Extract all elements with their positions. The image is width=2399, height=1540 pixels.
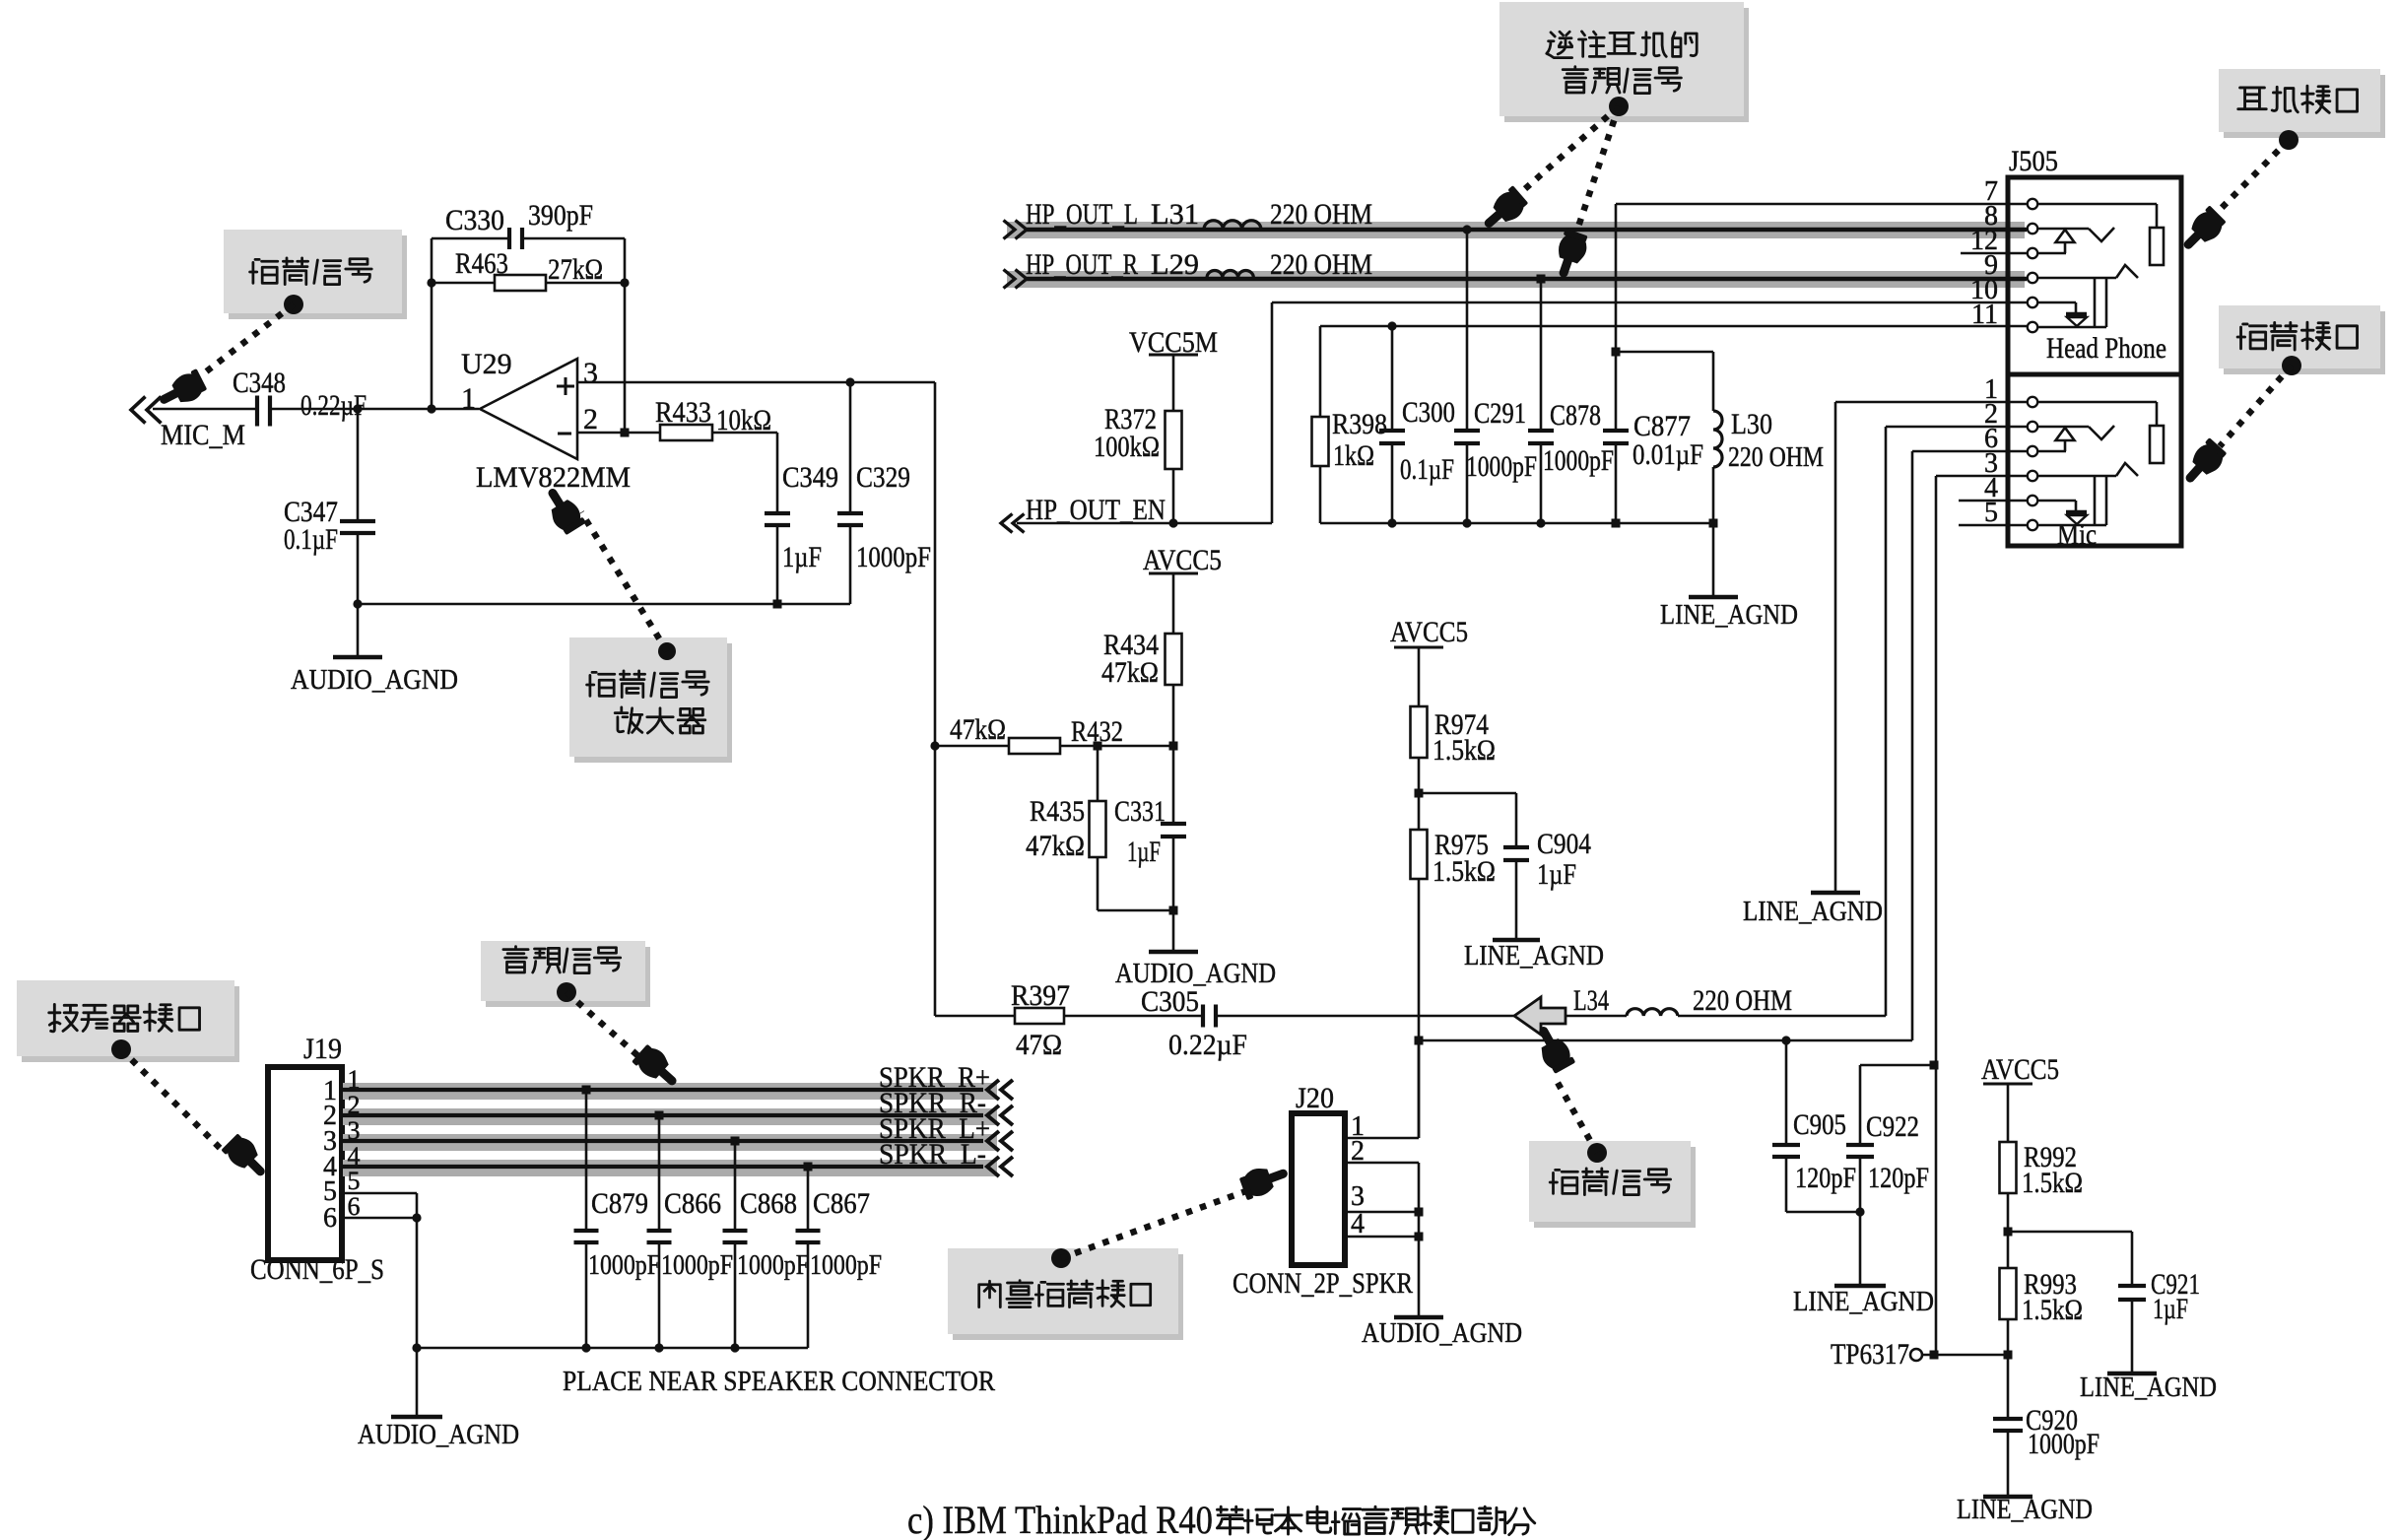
svg-text:R463: R463 xyxy=(455,247,508,280)
svg-text:2: 2 xyxy=(583,403,598,435)
svg-text:AVCC5: AVCC5 xyxy=(1981,1053,2059,1086)
svg-text:C291: C291 xyxy=(1474,397,1526,430)
wire feedback right vertical xyxy=(624,238,627,433)
resistor R993 1.5k xyxy=(2000,1268,2017,1319)
pin 7 J505 xyxy=(2028,199,2037,209)
svg-text:CONN_2P_SPKR: CONN_2P_SPKR xyxy=(1233,1267,1413,1300)
svg-text:LINE_AGND: LINE_AGND xyxy=(1464,941,1604,971)
trace SPKR line 1 xyxy=(343,1083,997,1100)
wire pin12 stub xyxy=(1961,252,2027,255)
svg-text:1µF: 1µF xyxy=(782,541,822,573)
svg-text:100kΩ: 100kΩ xyxy=(1094,431,1160,463)
resistor R435 47k xyxy=(1097,746,1100,801)
jack plug/triangle xyxy=(2038,228,2089,231)
svg-text:AVCC5: AVCC5 xyxy=(1143,544,1222,576)
svg-text:C330: C330 xyxy=(445,204,504,236)
jack tip contact xyxy=(2038,203,2157,206)
svg-text:1: 1 xyxy=(461,382,476,415)
capacitor C331 1uF xyxy=(1172,746,1175,824)
svg-text:U29: U29 xyxy=(461,348,512,380)
svg-text:3: 3 xyxy=(583,357,598,389)
svg-text:SPKR_L-: SPKR_L- xyxy=(879,1138,986,1171)
svg-text:6: 6 xyxy=(348,1192,361,1221)
resistor R397 47ohm xyxy=(1015,1008,1064,1024)
svg-text:220 OHM: 220 OHM xyxy=(1728,442,1824,473)
svg-text:C866: C866 xyxy=(664,1187,721,1220)
node R992/R993 + C921 branch xyxy=(2004,1228,2013,1237)
wire J505 pin6 vertical xyxy=(1912,450,2027,453)
svg-text:R398: R398 xyxy=(1332,408,1387,440)
svg-text:1.5kΩ: 1.5kΩ xyxy=(2022,1294,2083,1326)
svg-text:1000pF: 1000pF xyxy=(661,1249,733,1281)
svg-text:1.5kΩ: 1.5kΩ xyxy=(2022,1167,2083,1199)
svg-text:1000pF: 1000pF xyxy=(588,1249,660,1281)
svg-text:1000pF: 1000pF xyxy=(810,1249,882,1281)
jack plug/triangle xyxy=(2038,426,2089,429)
svg-text:C868: C868 xyxy=(740,1187,797,1220)
svg-text:LINE_AGND: LINE_AGND xyxy=(1957,1495,2093,1525)
pin 4 J505 xyxy=(2028,496,2037,505)
svg-text:Head Phone: Head Phone xyxy=(2046,332,2166,365)
svg-text:1000pF: 1000pF xyxy=(2028,1428,2099,1460)
svg-text:J19: J19 xyxy=(303,1033,342,1065)
svg-text:C348: C348 xyxy=(233,367,286,399)
capacitor C329 1000pF xyxy=(849,382,852,513)
capacitor C920 1000pF xyxy=(1993,1417,2023,1421)
wire mic bias line xyxy=(1415,1037,1424,1045)
wire mic signal line (R397/C305/L34) xyxy=(935,1015,1015,1018)
svg-text:6: 6 xyxy=(323,1203,337,1234)
node input junctions xyxy=(353,404,362,413)
svg-text:220 OHM: 220 OHM xyxy=(1270,248,1372,281)
resistor R974 1.5k xyxy=(1418,647,1421,706)
capacitor C922 120pF xyxy=(1930,1061,1939,1070)
svg-text:C329: C329 xyxy=(856,461,910,494)
svg-text:0.1µF: 0.1µF xyxy=(284,523,338,556)
svg-text:LINE_AGND: LINE_AGND xyxy=(1660,600,1798,631)
pin 11 J505 xyxy=(2028,322,2037,332)
svg-text:11: 11 xyxy=(1971,300,1998,330)
capacitor C878 xyxy=(1537,275,1546,284)
svg-text:PLACE NEAR SPEAKER CONNECTOR: PLACE NEAR SPEAKER CONNECTOR xyxy=(563,1366,996,1397)
wire op-amp pin2 xyxy=(577,432,660,435)
jack ring contact xyxy=(2038,277,2116,280)
capacitor C347 xyxy=(357,409,360,521)
capacitor C349 1uF xyxy=(712,432,777,435)
capacitor C867 1000pF xyxy=(804,1163,813,1172)
pin 12 J505 xyxy=(2028,248,2037,258)
wire cap rail xyxy=(417,1347,808,1350)
svg-text:27kΩ: 27kΩ xyxy=(548,253,603,286)
svg-text:J505: J505 xyxy=(2009,145,2058,177)
svg-text:HP_OUT_L: HP_OUT_L xyxy=(1026,198,1138,231)
svg-text:R397: R397 xyxy=(1011,979,1070,1012)
resistor R432 47k xyxy=(930,741,939,750)
svg-text:47kΩ: 47kΩ xyxy=(1101,656,1159,689)
trace SPKR line 2 xyxy=(343,1108,997,1125)
resistor R463 27k feedback xyxy=(432,282,495,285)
capacitor C879 1000pF xyxy=(582,1086,591,1095)
wire cap-group bottom rail xyxy=(1320,522,1713,525)
svg-text:AUDIO_AGND: AUDIO_AGND xyxy=(358,1420,519,1450)
wire J505 pin1 to LINE_AGND xyxy=(1835,401,2027,404)
wire J19 pin5/pin6 to ground xyxy=(343,1192,417,1195)
wire pin4 stub xyxy=(1959,500,2027,502)
svg-text:R433: R433 xyxy=(655,396,711,429)
trace HP_OUT_R xyxy=(1007,271,2025,288)
svg-text:1µF: 1µF xyxy=(2153,1293,2188,1325)
capacitor C921 1uF xyxy=(2131,1232,2134,1286)
svg-text:LINE_AGND: LINE_AGND xyxy=(1743,897,1883,927)
svg-text:C331: C331 xyxy=(1114,795,1166,828)
svg-text:120pF: 120pF xyxy=(1795,1162,1856,1194)
wire pin5 stub xyxy=(1959,524,2027,527)
capacitor C348 xyxy=(255,396,259,427)
svg-text:HP_OUT_EN: HP_OUT_EN xyxy=(1026,494,1166,526)
jack ring contact xyxy=(2038,475,2116,478)
svg-text:Mic: Mic xyxy=(2057,518,2097,551)
label headphone-audio callout xyxy=(1504,8,1749,122)
capacitor C866 1000pF xyxy=(655,1111,664,1120)
svg-text:C349: C349 xyxy=(782,461,838,494)
wire HP_OUT_EN xyxy=(1001,514,1013,533)
capacitor C305 0.22uF xyxy=(1201,1005,1205,1028)
svg-text:5: 5 xyxy=(348,1167,361,1195)
pin 10 J505 xyxy=(2028,298,2037,307)
pin 1 J505 xyxy=(2028,397,2037,407)
svg-text:4: 4 xyxy=(1351,1209,1365,1239)
svg-text:47kΩ: 47kΩ xyxy=(950,713,1006,746)
svg-text:1µF: 1µF xyxy=(1537,858,1576,891)
svg-text:L30: L30 xyxy=(1731,408,1772,440)
svg-text:120pF: 120pF xyxy=(1868,1162,1929,1194)
svg-text:R435: R435 xyxy=(1030,795,1085,828)
svg-text:C300: C300 xyxy=(1402,396,1455,429)
capacitor C904 1uF xyxy=(1515,793,1518,847)
svg-text:TP6317: TP6317 xyxy=(1831,1338,1909,1371)
svg-text:L29: L29 xyxy=(1151,248,1199,281)
jack sleeve switch xyxy=(2038,500,2076,502)
pin 1 J20 xyxy=(1345,1137,1419,1140)
svg-text:C905: C905 xyxy=(1793,1108,1846,1141)
wire pin7 corner xyxy=(1616,203,2027,206)
svg-text:J20: J20 xyxy=(1296,1082,1334,1114)
pin 8 J505 xyxy=(2028,224,2037,234)
capacitor C877 xyxy=(1612,348,1621,357)
svg-text:1000pF: 1000pF xyxy=(1543,444,1614,477)
svg-text:47kΩ: 47kΩ xyxy=(1026,830,1085,862)
svg-text:C904: C904 xyxy=(1537,828,1591,860)
svg-text:MIC_M: MIC_M xyxy=(161,419,245,451)
svg-text:1000pF: 1000pF xyxy=(737,1249,809,1281)
label mic-signal callout 2 xyxy=(1534,1147,1696,1228)
svg-text:AUDIO_AGND: AUDIO_AGND xyxy=(1362,1318,1522,1349)
svg-text:c) IBM ThinkPad R40: c) IBM ThinkPad R40 xyxy=(907,1498,1213,1540)
svg-text:C305: C305 xyxy=(1141,985,1199,1018)
trace SPKR line 4 xyxy=(343,1160,997,1176)
jack tip contact xyxy=(2038,401,2157,404)
svg-text:C922: C922 xyxy=(1866,1110,1919,1143)
svg-text:L34: L34 xyxy=(1573,984,1609,1017)
inductor L31 xyxy=(1204,221,1261,229)
wire op-amp bottom rail xyxy=(358,603,850,606)
resistor R992 1.5k xyxy=(2007,1084,2010,1142)
svg-text:CONN_6P_S: CONN_6P_S xyxy=(250,1253,384,1286)
inductor L34 + arrow xyxy=(1514,997,1566,1035)
svg-text:AVCC5: AVCC5 xyxy=(1390,616,1468,648)
ground AUDIO_AGND (C347) xyxy=(333,655,382,660)
capacitor C291 xyxy=(1462,225,1471,234)
pin 2 J505 xyxy=(2028,422,2037,432)
wire corner to pin10 line xyxy=(1271,302,1274,523)
label speaker-port callout xyxy=(22,986,239,1062)
wire MIC_M input xyxy=(131,397,146,424)
wire J505 pin2 vertical xyxy=(1886,426,2027,429)
svg-text:220 OHM: 220 OHM xyxy=(1270,198,1372,231)
svg-text:0.01µF: 0.01µF xyxy=(1633,438,1703,471)
pin 6 J505 xyxy=(2028,446,2037,456)
label mic-signal callout xyxy=(229,235,407,319)
op-amp U29 LMV822MM xyxy=(480,359,577,459)
trace SPKR line 3 xyxy=(343,1134,997,1151)
svg-text:AUDIO_AGND: AUDIO_AGND xyxy=(291,665,458,696)
svg-text:1.5kΩ: 1.5kΩ xyxy=(1433,855,1496,888)
svg-text:1.5kΩ: 1.5kΩ xyxy=(1433,734,1496,767)
svg-text:390pF: 390pF xyxy=(528,199,593,232)
svg-text:2: 2 xyxy=(1351,1136,1365,1167)
capacitor C330 390pF feedback xyxy=(431,238,433,409)
label headphone-port callout xyxy=(2224,75,2385,138)
wire J505 pin3 vertical xyxy=(1936,475,2027,478)
ground AUDIO_AGND (J20) xyxy=(1394,1315,1443,1320)
svg-text:HP_OUT_R: HP_OUT_R xyxy=(1026,248,1138,281)
svg-text:1kΩ: 1kΩ xyxy=(1333,439,1374,472)
label mic-port callout xyxy=(2224,311,2385,374)
svg-text:1µF: 1µF xyxy=(1127,836,1161,868)
resistor R433 10k xyxy=(660,425,712,440)
pin 3 J505 xyxy=(2028,471,2037,481)
capacitor C868 1000pF xyxy=(731,1137,740,1146)
capacitor C905 120pF xyxy=(1781,1036,1790,1044)
svg-text:0.22µF: 0.22µF xyxy=(1168,1029,1247,1061)
wire long vertical from pin3 xyxy=(934,382,937,1016)
jack sleeve switch xyxy=(2038,301,2076,304)
pin 2 J20 xyxy=(1345,1162,1419,1165)
svg-text:5: 5 xyxy=(1984,498,1998,528)
svg-text:LINE_AGND: LINE_AGND xyxy=(2080,1373,2217,1403)
pin 3 J20 xyxy=(1345,1211,1419,1214)
resistor R975 1.5k xyxy=(1411,830,1428,879)
svg-text:C867: C867 xyxy=(813,1187,870,1220)
svg-text:LINE_AGND: LINE_AGND xyxy=(1793,1287,1934,1317)
svg-text:0.1µF: 0.1µF xyxy=(1400,453,1454,486)
wire to op-amp xyxy=(271,408,479,411)
pin 9 J505 xyxy=(2028,273,2037,283)
ground LINE_AGND (L30) xyxy=(1712,523,1715,597)
capacitor C300 xyxy=(1387,321,1396,330)
label mic amp callout xyxy=(574,643,732,763)
label audio-signal callout xyxy=(486,947,650,1007)
svg-text:L31: L31 xyxy=(1151,198,1199,231)
svg-text:R432: R432 xyxy=(1071,715,1123,748)
wire op-amp pin3 xyxy=(577,381,935,384)
label internal-mic callout xyxy=(953,1254,1183,1340)
inductor L29 xyxy=(1207,271,1253,279)
svg-text:1000pF: 1000pF xyxy=(1466,450,1537,483)
ground AUDIO_AGND (C331) xyxy=(1149,950,1198,955)
svg-text:C879: C879 xyxy=(591,1187,648,1220)
svg-text:220 OHM: 220 OHM xyxy=(1693,984,1792,1017)
svg-text:C878: C878 xyxy=(1550,399,1601,432)
inductor L30 xyxy=(1616,351,1713,354)
svg-text:1000pF: 1000pF xyxy=(856,541,931,573)
pin 5 J505 xyxy=(2028,520,2037,530)
svg-text:47Ω: 47Ω xyxy=(1016,1029,1062,1061)
trace HP_OUT_L xyxy=(1007,222,2025,238)
svg-text:3: 3 xyxy=(1351,1181,1365,1212)
pin 4 J20 xyxy=(1345,1236,1419,1239)
node R974/R975 + C904 branch xyxy=(1415,789,1424,798)
wire rail to pin11 + R398 xyxy=(1320,325,2027,328)
